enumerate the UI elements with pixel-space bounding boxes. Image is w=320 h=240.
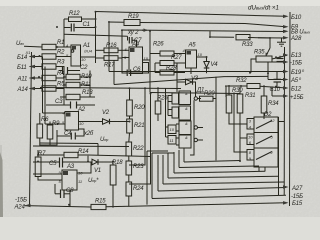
wire R33 tap riser — [209, 31, 211, 37]
svg-text:R33: R33 — [242, 42, 253, 48]
wire nested h1 — [184, 161, 240, 163]
svg-text:R13: R13 — [82, 90, 93, 96]
diode V4 — [204, 62, 210, 68]
resistor R10 — [66, 74, 80, 79]
wire row A11 — [30, 77, 43, 79]
resistor R2 — [42, 54, 56, 59]
wire nest vertical 5 — [167, 153, 169, 178]
wire vertical x122 xy2 drop — [121, 30, 123, 58]
svg-text:А27: А27 — [291, 186, 303, 192]
wire R26 lead left — [150, 53, 160, 55]
wire -15B line — [152, 195, 286, 198]
wire nest vertical 7 — [178, 150, 180, 168]
svg-text:V2: V2 — [102, 110, 110, 116]
wire nest vertical 1 — [146, 151, 148, 205]
wire nest vertical 3 — [157, 155, 159, 191]
wire bottom bus drop A24 — [69, 194, 71, 207]
svg-text:V3: V3 — [191, 76, 199, 82]
wire power riser +15B — [271, 89, 273, 97]
resistor R4 — [42, 75, 56, 80]
svg-text:+15Б: +15Б — [290, 95, 304, 101]
wire C6 loop — [122, 58, 127, 73]
svg-text:11: 11 — [78, 179, 82, 184]
svg-text:R26: R26 — [153, 42, 164, 48]
wire top bus to B10 — [96, 12, 287, 17]
svg-text:Д1: Д1 — [196, 88, 204, 94]
wire R6 leads — [39, 113, 41, 124]
svg-text:С6: С6 — [133, 67, 141, 73]
wire R28 leads — [155, 72, 160, 74]
capacitor C9 — [277, 59, 284, 62]
svg-text:R14: R14 — [78, 149, 89, 155]
wire R17 leads — [96, 57, 105, 59]
wire x98 drop — [97, 144, 99, 156]
wire row B14 — [30, 56, 43, 58]
svg-text:R22: R22 — [133, 146, 144, 152]
svg-text:С1: С1 — [83, 22, 90, 28]
wire R20 top lead — [129, 88, 131, 100]
potentiometer R35 — [256, 56, 272, 62]
resistor R18 — [110, 165, 116, 185]
op-amp A5 — [186, 50, 197, 68]
wire y35 link to C7 — [64, 34, 128, 36]
svg-text:С5: С5 — [49, 161, 57, 167]
wire A1 out — [81, 56, 96, 58]
resistor R30 — [226, 95, 232, 113]
resistor R11 — [66, 82, 80, 87]
wire A3 in top — [33, 173, 62, 175]
wire power vertical x268 — [267, 62, 269, 80]
wire xy2 row to B8 — [122, 30, 286, 32]
wire bus y88 long — [40, 88, 181, 89]
svg-text:R18: R18 — [112, 160, 123, 166]
resistor R26 — [160, 51, 174, 56]
svg-text:dUвых/dt ×1: dUвых/dt ×1 — [248, 5, 279, 12]
wire rail y76 — [114, 76, 268, 84]
resistor R6 — [37, 124, 43, 138]
capacitor C6 — [127, 70, 130, 77]
svg-text:-15Б: -15Б — [290, 61, 302, 67]
resistor R27 — [160, 61, 174, 66]
svg-text:-15Б: -15Б — [15, 198, 27, 204]
connector arrows right top — [283, 15, 289, 40]
capacitor C4 — [71, 133, 75, 140]
resistor R34 — [261, 96, 267, 113]
resistor R28 — [160, 70, 174, 75]
wire R11 leads — [64, 84, 66, 86]
svg-text:А5: А5 — [188, 43, 197, 49]
wire vertical x95 A1 output riser — [95, 12, 97, 64]
wire V3 row — [177, 81, 185, 83]
wire D2 bottom exits — [258, 167, 260, 172]
logic D1 small square 1 — [168, 125, 176, 134]
wire nest vertical 2 — [151, 153, 153, 198]
wire A4 in pin5 — [122, 57, 129, 59]
logic D1 input cell 1 — [172, 93, 179, 104]
arrow A24 — [25, 205, 32, 207]
svg-text:10: 10 — [248, 135, 253, 140]
svg-text:Б15: Б15 — [292, 201, 303, 207]
svg-text:&: & — [185, 91, 188, 96]
svg-text:С4: С4 — [64, 131, 72, 137]
svg-text:Б13: Б13 — [291, 53, 302, 59]
wire vertical x64 feedback — [63, 66, 65, 105]
wire R35 out — [272, 55, 287, 59]
diode V2 — [103, 119, 110, 124]
wire R33 leads — [210, 36, 234, 38]
wire vertical R31 ext — [239, 138, 241, 161]
svg-text:R2: R2 — [57, 50, 65, 56]
connector arrows right power — [283, 53, 289, 98]
wire R34 leads — [263, 87, 265, 97]
svg-text:V4: V4 — [211, 62, 219, 68]
wire A2 in1 — [43, 112, 66, 114]
svg-text:R19: R19 — [128, 14, 139, 20]
svg-text:10: 10 — [170, 127, 175, 132]
wire R35 feed — [269, 38, 271, 48]
logic D1 gate A — [179, 91, 191, 105]
wire mid riser x150b to R24 — [129, 94, 151, 185]
connector arrows right bottom — [283, 185, 289, 204]
resistor R14 — [64, 152, 78, 157]
svg-text:12: 12 — [270, 118, 275, 123]
svg-text:R5: R5 — [57, 82, 65, 88]
svg-text:11: 11 — [170, 138, 174, 143]
ground — [277, 38, 286, 46]
svg-text:Б10: Б10 — [291, 15, 302, 21]
op-amp A2 — [65, 112, 79, 131]
capacitor C1 — [71, 24, 74, 32]
wire x226 drop — [225, 86, 227, 97]
wire nested h3 — [174, 171, 265, 173]
svg-text:R12: R12 — [69, 11, 80, 17]
svg-text:А14: А14 — [17, 87, 29, 93]
svg-text:Б11: Б11 — [17, 65, 27, 71]
resistor R1 — [42, 44, 56, 49]
wire power stub +15B — [272, 95, 287, 97]
wire C1 leads — [64, 27, 71, 29]
svg-text:А24: А24 — [14, 205, 26, 211]
wire C5 V1 row — [33, 161, 59, 163]
resistor R20 — [127, 100, 133, 116]
wire vertical x150 mid — [149, 60, 151, 93]
wire R12 feedback left riser — [63, 19, 65, 47]
wire A2 loop lower h2 — [33, 145, 129, 148]
capacitor C2 — [63, 67, 68, 74]
wire D2 in R30 — [229, 119, 247, 124]
wire D1 left feed — [165, 88, 167, 137]
wire x88 drop — [87, 156, 89, 162]
svg-text:⊙U4: ⊙U4 — [84, 49, 93, 54]
wire mid riser x145 to R23 — [129, 88, 145, 165]
wire R18 leads — [112, 162, 114, 165]
svg-text:Б12: Б12 — [291, 87, 302, 93]
svg-text:R30: R30 — [232, 88, 243, 94]
wire C2 row — [59, 70, 63, 72]
logic D1 gate B — [179, 106, 191, 120]
wire bottom bus — [31, 206, 91, 207]
wire row A14 — [30, 88, 43, 90]
svg-text:&: & — [185, 106, 188, 111]
wire R25 vertical leads — [157, 88, 159, 101]
wire R16 leads — [96, 49, 105, 51]
resistor R19 — [124, 20, 140, 26]
wire Uvx input row — [24, 45, 42, 48]
resistor R33 — [236, 35, 250, 40]
svg-text:А2: А2 — [77, 107, 86, 113]
resistor R13 — [66, 94, 80, 99]
logic D1 gate D — [179, 135, 191, 148]
wire R12 leads — [64, 18, 69, 20]
wire R35 left leg — [251, 59, 256, 73]
wire vertical x114 — [113, 61, 115, 85]
wire A3 out — [77, 162, 91, 173]
wire A28 stub — [258, 37, 286, 39]
wire R27 leads — [155, 62, 160, 64]
wire power stub A5 — [268, 79, 287, 81]
svg-text:R35: R35 — [254, 50, 265, 56]
wire R9 leads — [49, 122, 51, 126]
resistor R15 — [91, 204, 106, 209]
svg-text:С8: С8 — [66, 188, 74, 194]
resistor R32 — [247, 84, 260, 89]
svg-text:R1: R1 — [57, 40, 64, 46]
svg-text:R15: R15 — [95, 199, 106, 205]
resistor R29 — [200, 96, 214, 101]
wire vertical x90 right of A1 — [89, 71, 91, 98]
svg-text:R21: R21 — [134, 123, 144, 129]
svg-text:R28: R28 — [166, 65, 177, 71]
wire nested h2 — [179, 166, 259, 168]
wire vertical x177 A5 to D1 — [176, 63, 178, 92]
svg-text:10: 10 — [198, 52, 203, 57]
svg-text:Б14: Б14 — [17, 55, 28, 61]
wire vertical x155 — [154, 63, 156, 73]
logic D1 input cell 2 — [172, 107, 179, 118]
wire C10 stubs — [276, 72, 278, 80]
resistor R23 — [126, 161, 132, 175]
svg-text:R17: R17 — [104, 63, 115, 69]
wire A5 bottom drop — [190, 68, 192, 74]
wire x216 vertical — [215, 77, 217, 161]
wire D2 in R31 — [240, 113, 247, 138]
wire nested h5 — [163, 182, 284, 184]
wire C9 stubs — [279, 56, 281, 59]
wire D2 right vertical — [278, 117, 280, 195]
wire A2 loop lower h1 — [40, 142, 98, 145]
wire nested h4 — [168, 176, 279, 178]
resistor R5 — [42, 86, 56, 91]
resistor R17 — [104, 56, 118, 61]
resistor R25 — [155, 101, 161, 114]
resistor R3 — [42, 64, 56, 69]
resistor R7 — [35, 157, 41, 177]
wire R14 row extension — [88, 155, 151, 157]
wire D1 input stubs — [168, 95, 172, 97]
op-amp A4 — [129, 47, 143, 74]
capacitor C7 — [129, 37, 132, 44]
svg-text:R20: R20 — [134, 105, 145, 111]
resistor R9 — [47, 125, 53, 139]
wire A4 out riser — [143, 31, 151, 61]
wire R10 leads — [64, 76, 66, 78]
wire A3 bottom loop C8 — [69, 190, 71, 194]
svg-text:R10: R10 — [81, 74, 92, 80]
wire D2 pin12 — [278, 121, 284, 123]
svg-text:R6: R6 — [41, 117, 49, 123]
wire R30 leads — [228, 86, 230, 95]
resistor R16 — [104, 48, 118, 53]
svg-text:R9: R9 — [52, 121, 60, 127]
wire R13 leads — [60, 96, 66, 98]
wire nest vertical 6 — [173, 152, 175, 173]
wire power stub -15B — [268, 61, 287, 63]
wire nest vertical 4 — [162, 155, 164, 184]
svg-text:R24: R24 — [133, 186, 144, 192]
xy2 arrow — [142, 29, 147, 31]
resistor R22 — [126, 142, 132, 156]
wire A2 in2 — [45, 123, 65, 125]
wire R31 top lead — [239, 87, 241, 94]
diode V1 — [92, 159, 98, 165]
wire vertical x109 — [108, 22, 110, 72]
svg-text:10: 10 — [78, 171, 83, 176]
wire R29 drop — [190, 100, 194, 155]
op-amp A1 — [71, 45, 81, 66]
svg-text:&: & — [185, 135, 188, 140]
wire R32 row — [225, 85, 247, 87]
svg-text:R25: R25 — [157, 96, 168, 102]
wire bus R19 row to B9 — [109, 21, 124, 23]
wire rail y72 to B19 — [109, 71, 286, 73]
svg-text:&: & — [185, 121, 188, 126]
wire left vertical bus x42 — [42, 57, 44, 114]
wire right connector vertical — [289, 12, 292, 206]
wire nest collectors — [147, 150, 168, 152]
svg-text:R27: R27 — [171, 55, 182, 61]
svg-text:R31: R31 — [245, 93, 255, 99]
wire R14 row — [38, 154, 64, 156]
svg-text:R16: R16 — [106, 43, 117, 49]
wire row B11 — [30, 66, 43, 68]
wire bus y93 — [150, 93, 240, 94]
diode V3 — [186, 79, 193, 84]
svg-text:А28: А28 — [290, 36, 302, 42]
capacitor C8 — [61, 190, 65, 199]
logic D1 gate C — [179, 121, 191, 135]
svg-text:10: 10 — [79, 121, 84, 126]
logic D1 small square 2 — [168, 136, 176, 145]
wire A2 out V2 row — [79, 121, 103, 123]
resistor R31 — [237, 94, 243, 113]
svg-text:R4: R4 — [57, 71, 65, 77]
svg-text:R32: R32 — [236, 78, 247, 84]
svg-text:-15Б: -15Б — [291, 194, 303, 200]
capacitor C10 — [274, 79, 282, 82]
svg-text:R29: R29 — [204, 91, 215, 97]
wire R20-R24 column — [129, 116, 131, 119]
wire R29 leads — [198, 98, 200, 100]
wire D1 outputs right riser — [198, 98, 202, 100]
svg-text:10: 10 — [81, 57, 86, 62]
svg-text:А4: А4 — [131, 42, 140, 48]
wire R7 leads — [37, 150, 39, 157]
wire C3 row — [46, 104, 70, 106]
wire A5 out V4 — [197, 57, 207, 62]
svg-text:х2б: х2б — [83, 131, 94, 137]
resistor R12 — [69, 17, 82, 22]
svg-text:С3: С3 — [55, 99, 63, 105]
svg-text:R3: R3 — [57, 60, 65, 66]
svg-text:R23: R23 — [133, 164, 144, 170]
wire left border slanted — [30, 52, 32, 206]
wire A2 bottom loop C4 — [57, 130, 71, 136]
svg-text:R34: R34 — [268, 101, 279, 107]
capacitor C3 — [71, 102, 77, 109]
resistor R24 — [126, 182, 132, 196]
svg-text:ху 2: ху 2 — [127, 30, 139, 36]
wire right connector vertical 2 — [283, 47, 285, 195]
wire left vertical bus x45 — [44, 67, 46, 125]
resistor R21 — [127, 119, 133, 133]
svg-text:R11: R11 — [81, 82, 91, 88]
svg-text:А11: А11 — [17, 77, 28, 83]
svg-text:V1: V1 — [94, 168, 101, 174]
svg-text:С10: С10 — [270, 87, 281, 93]
wire nest vertical 8 — [183, 148, 185, 162]
op-amp A3 — [62, 170, 77, 190]
connector X1 arrows left — [29, 55, 35, 91]
svg-text:10: 10 — [144, 56, 149, 61]
analog switch D2 — [254, 117, 278, 167]
svg-text:С2: С2 — [80, 65, 88, 71]
svg-text:А3: А3 — [66, 164, 75, 170]
capacitor C5 — [60, 158, 63, 168]
wire A27 line — [158, 188, 286, 192]
wire D2 in x234 — [234, 94, 247, 153]
svg-text:R7: R7 — [38, 151, 46, 157]
